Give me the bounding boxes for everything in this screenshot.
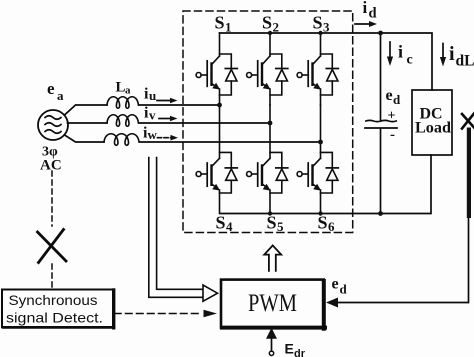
svg-text:Load: Load	[415, 120, 451, 137]
svg-text:v: v	[149, 108, 156, 123]
svg-text:w: w	[148, 127, 158, 142]
svg-text:i: i	[449, 43, 455, 65]
svg-text:e: e	[332, 276, 339, 293]
svg-text:a: a	[125, 85, 131, 97]
svg-text:d: d	[393, 92, 401, 107]
svg-text:2: 2	[273, 20, 280, 35]
svg-text:5: 5	[277, 219, 284, 234]
svg-text:L: L	[116, 80, 126, 96]
svg-text:d: d	[340, 282, 348, 297]
svg-text:6: 6	[328, 219, 335, 234]
svg-text:S: S	[267, 213, 277, 233]
svg-text:a: a	[57, 88, 64, 103]
svg-text:+: +	[388, 109, 396, 124]
svg-text:AC: AC	[40, 158, 62, 174]
svg-text:S: S	[318, 213, 328, 233]
svg-text:S: S	[215, 13, 225, 33]
svg-text:dL: dL	[456, 53, 474, 70]
svg-text:4: 4	[226, 219, 233, 234]
svg-text:S: S	[216, 213, 226, 233]
svg-text:c: c	[407, 53, 413, 68]
svg-text:1: 1	[225, 20, 232, 35]
svg-text:i: i	[398, 42, 403, 62]
svg-text:PWM: PWM	[248, 290, 297, 317]
svg-text:S: S	[262, 13, 272, 33]
svg-text:e: e	[47, 79, 55, 98]
svg-text:e: e	[386, 87, 393, 104]
svg-text:-: -	[390, 127, 395, 143]
svg-text:3: 3	[323, 20, 330, 35]
svg-text:u: u	[149, 88, 156, 103]
svg-text:i: i	[363, 0, 368, 17]
svg-text:S: S	[313, 13, 323, 33]
svg-text:d: d	[369, 6, 377, 22]
svg-text:dr: dr	[294, 348, 306, 357]
svg-text:Synchronous: Synchronous	[9, 292, 98, 308]
svg-text:signal Detect.: signal Detect.	[6, 310, 103, 326]
svg-text:E: E	[285, 341, 294, 357]
